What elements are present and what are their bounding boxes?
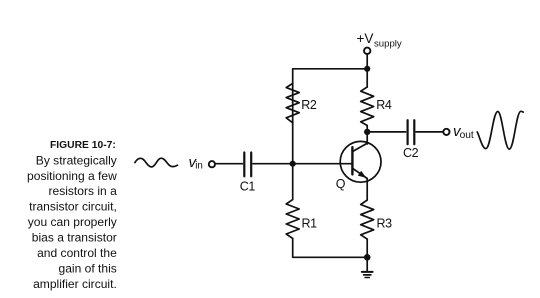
svg-text:+V: +V [357,31,374,46]
svg-text:R1: R1 [302,217,318,231]
svg-text:R4: R4 [376,98,392,112]
svg-text:By strategically: By strategically [36,153,117,167]
svg-text:positioning a few: positioning a few [27,169,117,183]
svg-text:bias a transistor: bias a transistor [32,231,117,245]
svg-text:R2: R2 [301,98,317,112]
svg-text:transistor circuit,: transistor circuit, [29,200,117,214]
svg-text:Q: Q [336,177,346,191]
svg-text:amplifier circuit.: amplifier circuit. [33,277,117,291]
svg-text:and control the: and control the [37,246,117,260]
svg-text:supply: supply [374,38,402,49]
svg-text:FIGURE 10-7:: FIGURE 10-7: [50,140,116,151]
svg-text:gain of this: gain of this [59,262,117,276]
svg-text:C2: C2 [403,146,419,160]
svg-text:in: in [195,161,203,172]
svg-text:out: out [460,130,474,141]
svg-text:resistors in a: resistors in a [49,184,118,198]
svg-text:C1: C1 [240,180,256,194]
svg-text:you can properly: you can properly [28,215,117,229]
svg-text:R3: R3 [377,217,393,231]
